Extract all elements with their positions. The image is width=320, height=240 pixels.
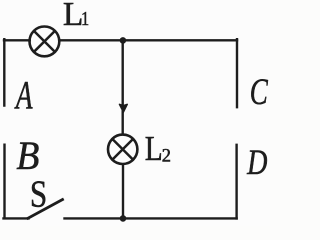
svg-text:D: D	[246, 142, 267, 182]
svg-text:2: 2	[162, 146, 171, 166]
junction dot bottom node	[120, 215, 127, 222]
wire top horizontal lamp to right corner	[59, 39, 237, 41]
label B terminal	[16, 134, 39, 178]
lamp L2	[108, 135, 137, 164]
label S switch	[30, 173, 47, 216]
junction dot top node	[120, 37, 127, 44]
label L2	[145, 129, 163, 168]
wire right upper vertical (terminal C lead)	[236, 39, 238, 107]
label C terminal	[250, 72, 268, 113]
svg-text:1: 1	[81, 8, 89, 31]
lamp L1	[30, 27, 60, 57]
label A terminal	[14, 74, 32, 117]
wire top-left horizontal	[4, 39, 30, 41]
current arrow on middle branch	[119, 104, 127, 112]
wire switch hinge stub	[4, 217, 29, 219]
label D terminal	[246, 142, 267, 182]
wire bottom horizontal	[65, 217, 237, 219]
svg-text:L: L	[145, 129, 163, 168]
svg-text:C: C	[250, 72, 268, 113]
svg-text:S: S	[30, 173, 47, 216]
wire left upper vertical (terminal A lead)	[3, 39, 5, 105]
switch S blade	[28, 200, 63, 219]
wire middle branch upper	[121, 40, 123, 134]
svg-text:A: A	[14, 74, 32, 117]
wire left lower vertical (terminal B lead)	[3, 145, 5, 218]
wire right lower vertical (terminal D lead)	[235, 145, 237, 219]
wire middle branch lower	[122, 166, 124, 219]
label L1	[63, 0, 83, 33]
